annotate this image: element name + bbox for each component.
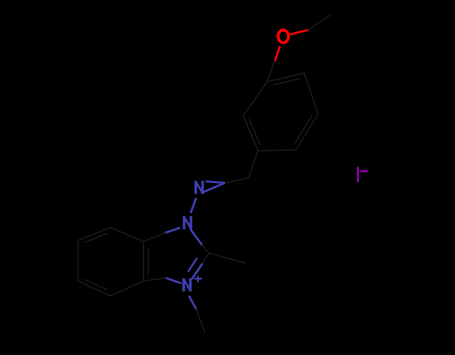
benzene ring of 4-methoxyphenyl [267,73,304,81]
inner double-bond line aryl lower-left edge [249,119,259,144]
inner double-bond line ring-fusion bond [147,249,149,275]
wire: N1-C7a bond (blue half) [165,228,179,233]
wire: aryl C1 to methine CH [249,151,259,178]
imine CH=N inner double line [206,181,224,183]
wire: O-C4aryl bond (red half) [275,47,280,61]
wire: O-C4aryl bond (carbon half) [267,61,275,82]
wire: N3-CH3 bond (carbon half) [196,309,205,333]
wire: N-N1 hydrazone bond [191,199,196,213]
atom N (imine nitrogen) [195,181,198,194]
inner double-bond line aryl top edge [274,79,300,85]
fused benzo ring of benzimidazolium [110,228,143,242]
iodide minus charge [360,170,367,172]
C2=N3 main line (blue half) [192,264,202,278]
atom N1 (benzimidazolium N1) [183,216,186,229]
wire: O-CH3 methoxy bond (carbon half) [308,15,330,30]
iodide anion I [357,167,359,182]
wire: N3-C3a bond (blue half) [166,278,181,283]
wire: N1-C7a bond (carbon half) [144,233,166,242]
wire: N1-C2 bond (carbon half) [202,245,209,253]
charge plus sign on N3 [194,278,202,280]
C2=N3 main line (carbon half) [202,253,209,264]
atom O (methoxy oxygen) [278,30,288,43]
inner double-bond line benzo bottom-left edge [85,280,107,290]
wire: O-CH3 methoxy bond (red half) [290,30,308,34]
inner double-bond line aryl lower-right edge [295,116,311,143]
inner double-bond line benzo top-left edge [85,233,107,242]
C2=N3 inner double line [189,259,197,272]
imine CH=N main line (N half, blue) [202,183,224,193]
wire: C2-CH3 2-methyl bond [209,253,245,263]
wire: N3-CH3 bond (blue half) [189,297,196,310]
atom N3+ (benzimidazolium N3) [182,278,185,291]
wire: N3-C3a bond (carbon half) [144,278,167,281]
imine CH=N main line (carbon half) [224,178,249,183]
wire: N1-C2 bond (blue half) [191,230,202,245]
